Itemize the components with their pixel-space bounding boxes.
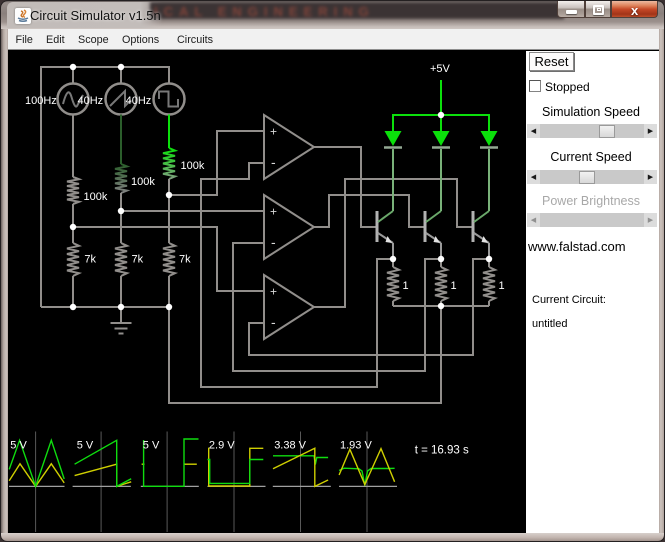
resistor R7 1 ohm xyxy=(387,259,409,306)
resistor R3 100k xyxy=(163,148,205,179)
wire: V1 node to op-amp U3 + input xyxy=(73,227,264,291)
voltage source V3 square 40Hz xyxy=(126,84,185,115)
wire: op-amp U1 output to base Q1 xyxy=(314,147,377,227)
scope 5 trace green xyxy=(273,456,328,465)
ground xyxy=(111,307,132,334)
wire: LED D2 anode stub xyxy=(440,115,442,131)
scope grid lines xyxy=(36,432,367,533)
LED D2 xyxy=(432,131,450,148)
scope baselines xyxy=(9,485,397,487)
resistor R6 7k xyxy=(163,243,191,276)
scope 3 trace yellow xyxy=(142,463,197,465)
wire xyxy=(72,204,74,243)
wire xyxy=(72,276,74,307)
wire: +5V rail xyxy=(393,115,489,131)
wire: op-amp U3 output to base Q3 xyxy=(314,179,473,307)
scope 5 trace yellow xyxy=(273,448,328,486)
wire: emitter Q2 feedback to op-amp U2 - input xyxy=(233,243,441,371)
op-amp U1 xyxy=(264,115,314,179)
scope 3 trace green xyxy=(144,439,199,486)
wire xyxy=(72,115,74,178)
wire: LED D1 cathode to collector Q1 xyxy=(392,149,394,211)
scope 6 trace yellow xyxy=(339,449,395,485)
wire xyxy=(120,115,122,165)
LED D3 xyxy=(480,131,498,148)
resistor R4 7k xyxy=(67,243,97,276)
transistor Q2 xyxy=(425,211,441,259)
wire: V3 node to op-amp U1 + input xyxy=(169,131,264,195)
voltage source V1 sine 100Hz xyxy=(25,84,89,115)
wire xyxy=(168,276,170,307)
scope 2 trace yellow xyxy=(75,464,132,486)
node junction dots xyxy=(70,64,492,310)
scope 4 trace yellow xyxy=(209,448,264,486)
resistor R9 1 ohm xyxy=(483,259,505,306)
wire: source V2 top stub xyxy=(120,67,122,84)
op-amp U2 xyxy=(264,195,314,259)
wire xyxy=(120,276,122,307)
wire: +5V supply xyxy=(440,80,442,115)
wire xyxy=(120,193,122,243)
scope 1 trace yellow xyxy=(9,464,64,487)
wire: emitter Q3 feedback to op-amp U3 - input xyxy=(249,259,489,355)
wire: LED D2 cathode to collector Q2 xyxy=(440,149,442,211)
transistor Q1 xyxy=(377,211,393,259)
LED D1 xyxy=(384,131,402,148)
scope 6 trace green xyxy=(339,468,395,485)
wire: bottom rail xyxy=(41,306,169,308)
transistor Q3 xyxy=(473,211,489,259)
wire: top rail connecting sources xyxy=(41,67,169,307)
wire: LED D3 cathode to collector Q3 xyxy=(488,149,490,211)
wire xyxy=(168,115,170,149)
wire xyxy=(168,179,170,243)
resistor R2 100k xyxy=(115,164,155,193)
resistor R1 100k xyxy=(67,177,108,204)
scope 1 trace green xyxy=(9,440,64,486)
resistor R5 7k xyxy=(115,243,144,276)
wire: op-amp U2 output to base Q2 xyxy=(314,195,425,227)
wire: emitter resistor common rail xyxy=(393,305,489,307)
scope 2 trace green xyxy=(75,440,132,486)
scope labels xyxy=(10,440,372,452)
wire: V2 node to op-amp U2 + input xyxy=(121,210,264,212)
scope 4 trace green xyxy=(208,460,264,484)
wire: source V1 top stub xyxy=(72,67,74,84)
resistor R8 1 ohm xyxy=(435,259,457,306)
wire: emitter Q1 feedback to op-amp U1 - input xyxy=(201,163,393,387)
wire: ground return to emitter resistors xyxy=(169,306,441,403)
voltage source V2 sawtooth 40Hz xyxy=(78,84,137,115)
op-amp U3 xyxy=(264,275,314,339)
